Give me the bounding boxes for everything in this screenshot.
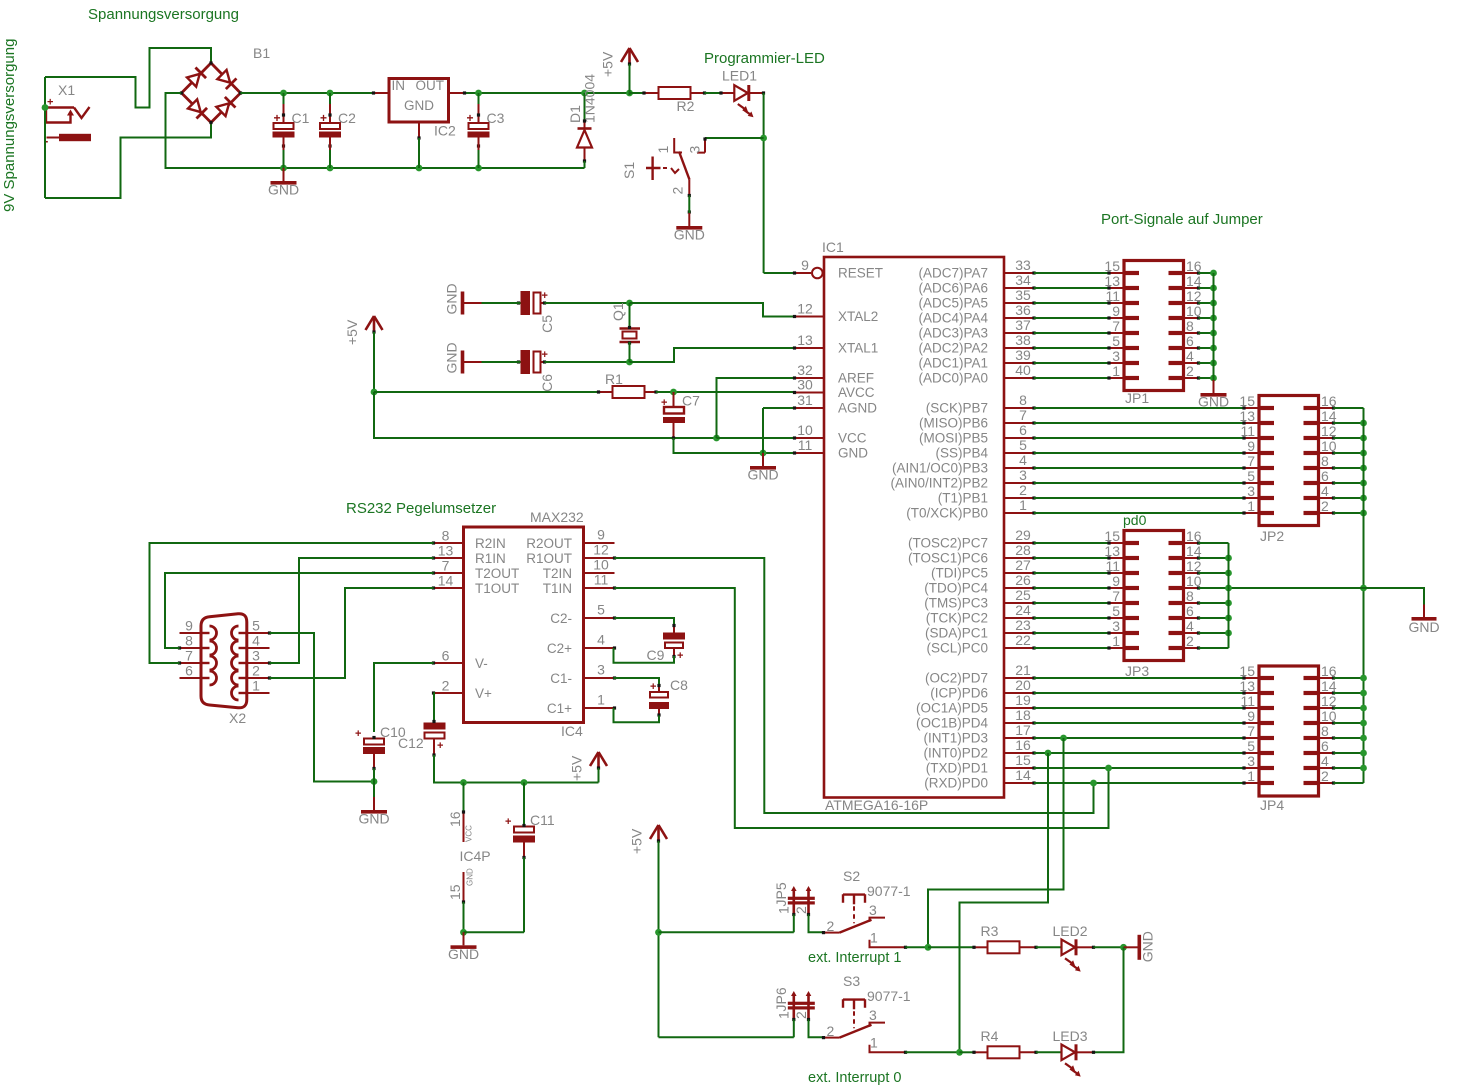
JP4 pin left 13 — [1242, 691, 1259, 694]
svg-text:V+: V+ — [475, 686, 492, 701]
JP4 pin stub left 7 — [1259, 736, 1274, 740]
IC1 pin 23 (SDA)PC1 — [1004, 631, 1036, 634]
X2 pin 1 — [247, 692, 270, 694]
JP3 pin right 2 — [1184, 646, 1201, 649]
svg-text:2: 2 — [1321, 498, 1329, 514]
wire R1OUT to RXD — [615, 558, 1094, 813]
JP4 pin stub right 12 — [1304, 706, 1319, 710]
wire R2 to LED1 — [705, 92, 722, 94]
JP4 pin stub right 16 — [1304, 676, 1319, 680]
JP4 pin stub left 5 — [1259, 751, 1274, 755]
JP1 pin stub right 2 — [1169, 376, 1184, 380]
svg-text:4: 4 — [252, 633, 260, 649]
JP3 pin left 3 — [1107, 631, 1124, 634]
IC1 pin 4 (AIN1/OC0)PB3 — [1004, 466, 1036, 469]
wire JP2 right row 423 — [1334, 422, 1364, 424]
jumper JP6 — [773, 987, 815, 1021]
svg-text:JP3: JP3 — [1125, 663, 1149, 679]
connector X1 9V power jack — [44, 82, 91, 148]
IC1 pin 2 (T1)PB1 — [1004, 496, 1036, 499]
svg-text:C5: C5 — [539, 315, 555, 333]
wire JP3 right column — [1228, 543, 1230, 648]
JP2 pin stub left 15 — [1259, 406, 1274, 410]
junction S3 R4 — [956, 1049, 963, 1056]
junction INT1 PD3 — [1060, 735, 1067, 742]
svg-text:11: 11 — [1105, 558, 1120, 574]
LED3 lead right — [1078, 1051, 1096, 1054]
svg-text:2: 2 — [252, 663, 260, 679]
JP4 pin stub left 11 — [1259, 706, 1274, 710]
IC4 pin 7 T2OUT — [432, 571, 464, 574]
wire C1- to C8 — [614, 678, 660, 685]
junction JP1 gnd column 303 — [1210, 300, 1217, 307]
junction JP2 right column 498 — [1360, 495, 1367, 502]
svg-text:Spannungsversorgung: Spannungsversorgung — [88, 6, 239, 23]
JP4 pin left 1 — [1242, 781, 1259, 784]
svg-text:JP1: JP1 — [1125, 390, 1149, 406]
switch S3 9077-1 — [822, 973, 911, 1054]
JP4 pin left 7 — [1242, 736, 1259, 739]
svg-text:GND: GND — [838, 446, 868, 461]
wire +5V to JP5 — [659, 931, 794, 933]
JP3 pin left 5 — [1107, 616, 1124, 619]
svg-text:T1OUT: T1OUT — [475, 581, 519, 596]
svg-text:3: 3 — [1247, 753, 1255, 769]
svg-text:9: 9 — [1112, 303, 1120, 319]
svg-text:+: + — [320, 111, 327, 125]
wire JP3 right row 603 — [1199, 602, 1229, 604]
svg-text:16: 16 — [1015, 737, 1031, 753]
svg-text:6: 6 — [1321, 738, 1329, 754]
junction +5V jumpers — [655, 929, 662, 936]
junction JP4 right column 753 — [1360, 750, 1367, 757]
junction JP1 gnd column 378 — [1210, 375, 1217, 382]
wire JP2 right row 483 — [1334, 482, 1364, 484]
JP1 pin right 8 — [1184, 331, 1201, 334]
wire IC4P gnd down — [463, 902, 465, 932]
JP4 pin stub left 13 — [1259, 691, 1274, 695]
wire crystal top lead — [629, 303, 631, 328]
JP2 pin stub left 5 — [1259, 481, 1274, 485]
junction top rail C2 — [327, 90, 334, 97]
junction top rail C1 — [280, 90, 287, 97]
IC1 pin 1 (T0/XCK)PB0 — [1004, 511, 1036, 514]
junction crystal top — [626, 300, 633, 307]
svg-text:GND: GND — [444, 342, 460, 373]
junction JP4 right column 693 — [1360, 690, 1367, 697]
junction LED2 gnd — [1120, 944, 1127, 951]
connector X2 DB9 — [201, 614, 247, 726]
wire PD row 723 to JP4 — [1034, 722, 1244, 724]
svg-text:(SCL)PC0: (SCL)PC0 — [926, 641, 988, 656]
svg-text:GND: GND — [444, 283, 460, 314]
wire X2 pin5 to gnd rail — [270, 633, 375, 782]
junction JP3 right column 618 — [1225, 615, 1232, 622]
IC1 pin 27 (TDI)PC5 — [1004, 571, 1036, 574]
IC4 pin 13 R1IN — [432, 556, 464, 559]
junction JP3 right column 603 — [1225, 600, 1232, 607]
JP2 pin stub left 7 — [1259, 466, 1274, 470]
svg-text:R2OUT: R2OUT — [526, 536, 572, 551]
wire C9 to C2+ — [614, 648, 675, 663]
IC1 pin 14 (RXD)PD0 — [1004, 781, 1036, 784]
wire X1 plus vertical — [44, 77, 46, 198]
JP4 pin right 8 — [1319, 736, 1336, 739]
svg-text:IC4: IC4 — [561, 723, 583, 739]
ground GND right of LED2 — [1124, 931, 1156, 962]
svg-text:12: 12 — [1321, 693, 1337, 709]
crystal Q1 — [610, 302, 640, 344]
svg-text:9: 9 — [1112, 573, 1120, 589]
JP3 pin stub left 13 — [1124, 556, 1139, 560]
JP3 pin left 7 — [1107, 601, 1124, 604]
JP2 pin stub left 3 — [1259, 496, 1274, 500]
svg-text:12: 12 — [593, 542, 609, 558]
resistor R1 lead right — [645, 390, 658, 393]
JP2 pin stub left 1 — [1259, 511, 1274, 515]
svg-text:3: 3 — [869, 1007, 877, 1023]
svg-text:9: 9 — [185, 618, 193, 634]
JP2 pin left 5 — [1242, 481, 1259, 484]
wire PA row 303 to JP1 — [1034, 302, 1109, 304]
ground GND left of C5 — [444, 283, 482, 314]
svg-text:S3: S3 — [843, 973, 860, 989]
IC1 pin 5 (SS)PB4 — [1004, 451, 1036, 454]
wire X2 pin8 to T2OUT — [165, 573, 434, 648]
IC1 pin 15 (TXD)PD1 — [1004, 766, 1036, 769]
ground GND below S1 — [674, 213, 705, 243]
svg-text:AVCC: AVCC — [838, 385, 875, 400]
JP1 pin right 14 — [1184, 286, 1201, 289]
resistor R1 lead left — [597, 390, 613, 393]
power +5V main rail — [600, 48, 639, 77]
JP1 pin left 5 — [1107, 346, 1124, 349]
svg-text:8: 8 — [1019, 392, 1027, 408]
junction JP3 right column 573 — [1225, 570, 1232, 577]
wire B1 left to gnd rail — [166, 93, 585, 168]
svg-text:16: 16 — [1321, 393, 1337, 409]
voltage regulator IC2 — [372, 78, 466, 140]
svg-text:LED1: LED1 — [722, 68, 757, 84]
JP4 pin stub right 4 — [1304, 766, 1319, 770]
JP3 pin left 15 — [1107, 541, 1124, 544]
svg-text:7: 7 — [1112, 588, 1120, 604]
junction VCC AREF — [713, 435, 720, 442]
JP4 pin right 6 — [1319, 751, 1336, 754]
wire PD row 783 to JP4 — [1034, 782, 1244, 784]
svg-text:LED3: LED3 — [1053, 1028, 1088, 1044]
svg-text:9: 9 — [1247, 708, 1255, 724]
junction JP3 right column 558 — [1225, 555, 1232, 562]
svg-text:2: 2 — [793, 1011, 809, 1019]
wire PB row 498 to JP2 — [1034, 497, 1244, 499]
wire PD row 753 to JP4 — [1034, 752, 1244, 754]
junction JP4 right column 708 — [1360, 705, 1367, 712]
svg-text:13: 13 — [1104, 543, 1120, 559]
svg-text:GND: GND — [674, 227, 705, 243]
power +5V analog — [344, 316, 383, 345]
wire JP1 right row 333 — [1199, 332, 1214, 334]
JP1 pin stub left 13 — [1124, 286, 1139, 290]
IC1 pin 31 AGND — [793, 406, 824, 409]
svg-text:+: + — [274, 111, 281, 125]
svg-text:8: 8 — [1186, 318, 1194, 334]
JP1 pin right 16 — [1184, 271, 1201, 274]
IC1 pin 10 VCC — [793, 436, 824, 439]
JP4 pin right 10 — [1319, 721, 1336, 724]
svg-text:+5V: +5V — [629, 828, 645, 854]
wire PA row 348 to JP1 — [1034, 347, 1109, 349]
svg-text:T1IN: T1IN — [543, 581, 572, 596]
svg-text:1: 1 — [1247, 498, 1255, 514]
IC1 pin 11 GND — [793, 451, 824, 454]
IC1 pin 6 (MOSI)PB5 — [1004, 436, 1036, 439]
ground GND left of C6 — [444, 342, 482, 373]
JP2 pin left 13 — [1242, 421, 1259, 424]
svg-text:5: 5 — [597, 602, 605, 618]
LED1 lead right — [749, 91, 765, 94]
svg-text:15: 15 — [1104, 528, 1120, 544]
wire crystal bottom to XTAL1 — [630, 348, 795, 362]
svg-text:(TDO)PC4: (TDO)PC4 — [924, 581, 988, 596]
wire PB row 468 to JP2 — [1034, 467, 1244, 469]
wire JP4 right row 693 — [1334, 692, 1364, 694]
svg-text:+5V: +5V — [569, 755, 585, 781]
IC1 pin 28 (TOSC1)PC6 — [1004, 556, 1036, 559]
svg-text:1: 1 — [870, 1034, 878, 1050]
svg-text:12: 12 — [1321, 423, 1337, 439]
svg-text:13: 13 — [1239, 408, 1255, 424]
wire PA row 288 to JP1 — [1034, 287, 1109, 289]
svg-text:C3: C3 — [487, 110, 505, 126]
wire V+ to C12 — [433, 693, 436, 723]
JP3 pin right 16 — [1184, 541, 1201, 544]
svg-text:12: 12 — [797, 301, 813, 317]
JP3 pin stub right 16 — [1169, 541, 1184, 545]
JP2 pin stub right 8 — [1304, 466, 1319, 470]
svg-text:9077-1: 9077-1 — [867, 883, 911, 899]
IC1 pin 16 (INT0)PD2 — [1004, 751, 1036, 754]
wire PB row 513 to JP2 — [1034, 512, 1244, 514]
junction JP2 right column 468 — [1360, 465, 1367, 472]
junction S1 pin3 tap — [760, 135, 767, 142]
wire JP2 right row 468 — [1334, 467, 1364, 469]
IC4 pin 11 T1IN — [584, 586, 617, 589]
svg-text:C2: C2 — [338, 110, 356, 126]
svg-text:+: + — [542, 290, 548, 302]
svg-text:(MOSI)PB5: (MOSI)PB5 — [919, 431, 988, 446]
capacitor C10 top lead — [373, 732, 375, 739]
wire PA row 333 to JP1 — [1034, 332, 1109, 334]
wire PD row 738 to JP4 — [1034, 737, 1244, 739]
svg-text:6: 6 — [1186, 333, 1194, 349]
JP1 pin stub right 14 — [1169, 286, 1184, 290]
svg-text:15: 15 — [1104, 258, 1120, 274]
svg-text:3: 3 — [1019, 467, 1027, 483]
IC1 pin 34 (ADC6)PA6 — [1004, 286, 1036, 289]
wire PA row 273 to JP1 — [1034, 272, 1109, 274]
svg-text:3: 3 — [1112, 348, 1120, 364]
JP2 pin stub right 14 — [1304, 421, 1319, 425]
svg-text:5: 5 — [252, 618, 260, 634]
svg-text:16: 16 — [447, 811, 463, 827]
capacitor C8 — [649, 677, 688, 717]
junction RXD PD0 — [1090, 780, 1097, 787]
IC4 pin 12 R1OUT — [584, 556, 617, 559]
svg-text:11: 11 — [1240, 693, 1255, 709]
bridge rectifier B1 — [180, 45, 270, 124]
JP1 pin stub right 8 — [1169, 331, 1184, 335]
wire JP2 right row 498 — [1334, 497, 1364, 499]
JP4 pin right 2 — [1319, 781, 1336, 784]
svg-text:9077-1: 9077-1 — [867, 988, 911, 1004]
JP2 pin right 16 — [1319, 406, 1336, 409]
wire PB row 408 to JP2 — [1034, 407, 1244, 409]
svg-text:IC1: IC1 — [822, 239, 844, 255]
JP1 pin left 3 — [1107, 361, 1124, 364]
svg-text:JP2: JP2 — [1260, 528, 1284, 544]
svg-text:8: 8 — [1321, 723, 1329, 739]
power +5V rs232 — [569, 752, 608, 781]
svg-text:15: 15 — [1239, 393, 1255, 409]
connector JP1 box — [1124, 261, 1184, 391]
svg-text:6: 6 — [1321, 468, 1329, 484]
junction +5V rail IC4P — [460, 779, 467, 786]
JP3 pin right 4 — [1184, 631, 1201, 634]
svg-text:12: 12 — [1186, 288, 1202, 304]
svg-text:10: 10 — [1186, 303, 1202, 319]
junction JP1 gnd column 363 — [1210, 360, 1217, 367]
JP1 pin left 9 — [1107, 316, 1124, 319]
wire INT1 down to S2 — [928, 738, 1064, 947]
wire PA row 318 to JP1 — [1034, 317, 1109, 319]
JP4 pin stub right 10 — [1304, 721, 1319, 725]
JP3 pin left 13 — [1107, 556, 1124, 559]
svg-text:8: 8 — [442, 528, 450, 544]
JP4 pin right 16 — [1319, 676, 1336, 679]
svg-text:5: 5 — [1247, 468, 1255, 484]
wire C5 to crystal — [545, 302, 630, 304]
junction JP1 gnd column 288 — [1210, 285, 1217, 292]
wire JP4 right row 678 — [1334, 677, 1364, 679]
svg-text:7: 7 — [1112, 318, 1120, 334]
svg-text:11: 11 — [1105, 288, 1120, 304]
wire PD row 768 to JP4 — [1034, 767, 1244, 769]
wire JP1 right row 318 — [1199, 317, 1214, 319]
switch S2 9077-1 — [822, 868, 911, 949]
wire R3 to LED2 — [1036, 946, 1062, 948]
wire PA row 378 to JP1 — [1034, 377, 1109, 379]
junction gnd rail C10 — [371, 778, 378, 785]
svg-text:(T0/XCK)PB0: (T0/XCK)PB0 — [906, 506, 988, 521]
wire JP4 right row 783 — [1334, 782, 1364, 784]
svg-text:11: 11 — [1240, 423, 1255, 439]
wire X1 minus loop — [45, 123, 211, 199]
capacitor C2 bottom lead — [329, 138, 331, 151]
capacitor C2 plates — [319, 110, 356, 148]
power +5V rs232 wire — [598, 768, 600, 783]
capacitor C3 lead — [478, 104, 480, 123]
wire PC row 603 to JP3 — [1034, 602, 1109, 604]
svg-text:17: 17 — [1015, 722, 1031, 738]
resistor R3 lead left — [972, 946, 987, 949]
svg-text:MAX232: MAX232 — [530, 509, 584, 525]
svg-text:+: + — [650, 681, 656, 693]
ground GND below C1 — [268, 168, 299, 198]
junction JP4 right column 678 — [1360, 675, 1367, 682]
svg-text:+: + — [661, 397, 667, 409]
JP3 pin stub left 1 — [1124, 646, 1139, 650]
svg-text:25: 25 — [1015, 587, 1031, 603]
IC1 pin 7 (MISO)PB6 — [1004, 421, 1036, 424]
svg-text:28: 28 — [1015, 542, 1031, 558]
JP2 pin right 4 — [1319, 496, 1336, 499]
JP4 pin left 9 — [1242, 721, 1259, 724]
microcontroller IC1 ATMEGA16-16P box — [824, 257, 1004, 798]
JP1 pin stub right 10 — [1169, 316, 1184, 320]
wire PC row 648 to JP3 — [1034, 647, 1109, 649]
svg-text:14: 14 — [1321, 408, 1337, 424]
svg-text:12: 12 — [1186, 558, 1202, 574]
svg-text:XTAL2: XTAL2 — [838, 309, 878, 324]
JP4 pin right 12 — [1319, 706, 1336, 709]
svg-text:4: 4 — [1186, 348, 1194, 364]
IC4 pin 9 R2OUT — [584, 542, 615, 544]
capacitor C10 — [355, 724, 406, 770]
svg-text:27: 27 — [1015, 557, 1031, 573]
svg-text:1: 1 — [597, 692, 605, 708]
wire PC row 633 to JP3 — [1034, 632, 1109, 634]
svg-text:(ADC4)PA4: (ADC4)PA4 — [918, 311, 988, 326]
svg-text:ext. Interrupt 1: ext. Interrupt 1 — [808, 950, 902, 966]
JP2 pin left 15 — [1242, 406, 1259, 409]
wire C8 to C1+ — [614, 708, 660, 722]
JP3 pin right 12 — [1184, 571, 1201, 574]
capacitor C6 — [517, 349, 555, 392]
ground GND right of JP3 column — [1408, 605, 1439, 636]
wire X2 pin7 to R2IN — [150, 543, 434, 663]
svg-text:6: 6 — [442, 648, 450, 664]
svg-text:29: 29 — [1015, 527, 1031, 543]
svg-text:7: 7 — [1247, 723, 1255, 739]
IC1 pin 30 AVCC — [793, 391, 824, 394]
JP2 pin right 14 — [1319, 421, 1336, 424]
junction JP1 gnd column 273 — [1210, 270, 1217, 277]
ground GND below AGND — [747, 453, 778, 483]
JP2 pin right 2 — [1319, 511, 1336, 514]
wire JP3 right row 618 — [1199, 617, 1229, 619]
svg-text:(OC1A)PD5: (OC1A)PD5 — [916, 701, 988, 716]
junction JP2 right column 438 — [1360, 435, 1367, 442]
svg-text:1: 1 — [776, 906, 792, 914]
wire T1IN to TXD — [615, 588, 1109, 828]
svg-text:R1OUT: R1OUT — [526, 551, 572, 566]
junction JP1 gnd column 318 — [1210, 315, 1217, 322]
wire PD row 693 to JP4 — [1034, 692, 1244, 694]
wire JP2 right row 438 — [1334, 437, 1364, 439]
JP2 pin right 8 — [1319, 466, 1336, 469]
svg-text:T2IN: T2IN — [543, 566, 572, 581]
wire JP1 right row 273 — [1199, 272, 1214, 274]
wire JP1 right row 288 — [1199, 287, 1214, 289]
JP4 pin stub right 6 — [1304, 751, 1319, 755]
svg-text:(INT1)PD3: (INT1)PD3 — [923, 731, 988, 746]
IC1 pin 3 (AIN0/INT2)PB2 — [1004, 481, 1036, 484]
wire PB row 423 to JP2 — [1034, 422, 1244, 424]
wire gnd to C5 — [482, 302, 521, 304]
capacitor C12 — [398, 720, 446, 757]
IC1 pin 35 (ADC5)PA5 — [1004, 301, 1036, 304]
